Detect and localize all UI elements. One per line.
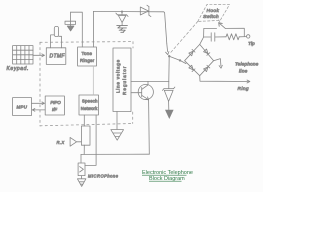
wire switch to bridge [169,56,186,63]
regulator ground [111,112,124,141]
wire RX to common [83,145,85,154]
microphone box [78,163,85,176]
bridge rectifier diamond [185,44,214,75]
svg-text:Switch: Switch [203,14,219,20]
svg-text:I/F: I/F [52,107,57,112]
tone ringer U2 [78,47,97,66]
svg-text:MICROPhone: MICROPhone [88,174,119,179]
bridge diode top-right [204,49,210,55]
wire resistor to tip [239,36,246,38]
wire speech to RX [83,115,85,126]
svg-text:PIPO: PIPO [50,100,61,105]
tip terminal [247,35,250,38]
svg-text:Speech: Speech [82,99,98,104]
bridge diode top-left [189,49,195,55]
faint wire tone ringer to speech [92,66,94,95]
hook switch branch top [204,23,245,37]
wire speech to mic [85,115,96,165]
svg-text:Tone: Tone [82,51,93,56]
capacitor C1 [65,12,76,25]
earth ground under D1 [117,26,128,33]
zener D3 [163,82,175,110]
audio common wire [81,153,149,155]
transistor Q1 [131,81,153,99]
wire bridge right vertex arrow [214,59,223,69]
RC branch bottom: capacitor C2 [204,33,226,41]
receiver RX box [81,126,90,145]
regulator label [116,59,127,95]
svg-text:Keypad.: Keypad. [7,66,30,72]
hook switch dashed parallelogram [198,4,230,21]
top rail wire [93,10,163,12]
receiver cone [70,137,81,146]
bus arrow to PIPO [32,102,45,105]
title text [142,170,193,182]
svg-text:Network: Network [81,106,98,111]
resistor R1 zigzag [226,34,239,40]
dashed link label to switch blade [218,20,221,22]
bridge diode bottom-left [189,65,195,71]
rail continues down to zener D3 [168,56,170,81]
emitter wire down [148,100,151,154]
wire bridge top to RC [200,37,204,44]
bridge diode bottom-right [204,65,210,71]
wire C1 to tone ringer pin [71,12,83,47]
wire tone ringer pin2 to top rail [92,11,94,47]
DTMF U1 [46,48,66,65]
svg-text:Ringer: Ringer [80,58,95,63]
svg-text:Regulator: Regulator [122,66,127,95]
enclosure dashed box [40,42,133,126]
rail corner down [164,12,167,44]
keypad [13,46,33,64]
diode D2 on rail [140,5,151,16]
wire collector rail [131,80,169,82]
zener D1 to ground [116,11,128,26]
svg-text:line: line [239,69,248,74]
hook switch pole (left) [166,44,171,58]
svg-text:Tip: Tip [248,41,255,47]
svg-text:DTMF: DTMF [50,54,66,60]
ground under C1 [67,26,74,31]
wire mic top to common [80,154,82,163]
svg-text:Ring: Ring [238,86,249,92]
svg-text:Line voltage: Line voltage [116,59,121,93]
mic ground [77,176,86,187]
microphone symbol [80,167,84,172]
speech network U6 [79,95,99,115]
ground arrow under D3 [165,110,174,119]
svg-text:Hook: Hook [207,8,220,14]
crystal X1 [51,26,62,47]
bus arrow to MPU [32,109,45,112]
svg-text:MPU: MPU [17,105,28,110]
MPU U4 [13,98,32,116]
wire bridge bottom to ring [200,76,250,83]
dashed link label to left pole [171,21,198,52]
PIPO I/F U5 [45,96,64,115]
svg-text:Telephone: Telephone [235,62,259,67]
wire keypad to DTMF [33,54,44,57]
svg-text:R.X: R.X [57,140,65,145]
line voltage regulator U3 [113,48,131,112]
